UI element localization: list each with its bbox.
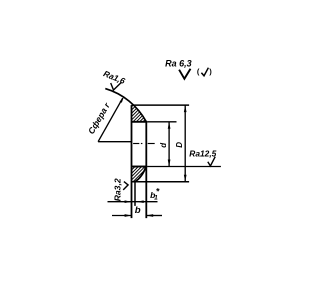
svg-text:Ra 6,3: Ra 6,3: [165, 59, 192, 69]
svg-text:D: D: [175, 142, 184, 148]
svg-text:Сфера r: Сфера r: [86, 100, 112, 135]
svg-text:*: *: [156, 187, 160, 197]
svg-text:(: (: [197, 67, 200, 76]
svg-text:d: d: [159, 142, 168, 148]
svg-text:): ): [209, 67, 212, 76]
svg-text:b: b: [135, 205, 141, 216]
svg-text:Ra3,2: Ra3,2: [113, 178, 123, 201]
svg-text:Ra12,5: Ra12,5: [189, 149, 216, 159]
svg-text:Ra1,6: Ra1,6: [102, 68, 127, 86]
